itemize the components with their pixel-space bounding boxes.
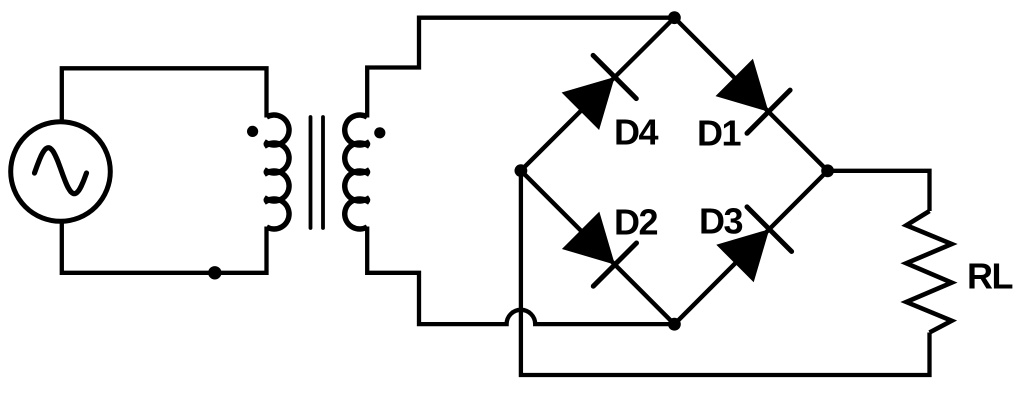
resistor RL zigzag bbox=[906, 211, 951, 333]
diode D1 cathode bar bbox=[747, 90, 790, 133]
svg-text:D1: D1 bbox=[697, 113, 741, 154]
wire bridge diamond edges bbox=[521, 18, 828, 325]
diode D3 cathode bar bbox=[747, 207, 792, 252]
wire left node down and bottom return bbox=[521, 171, 930, 375]
transformer T1 secondary coil bbox=[345, 115, 368, 229]
junction dot on primary bottom wire bbox=[208, 266, 221, 279]
transformer T1 polarity dot secondary bbox=[374, 127, 385, 138]
node right junction dot bbox=[821, 164, 834, 177]
wire secondary top to bridge bbox=[367, 18, 674, 118]
node left junction dot bbox=[515, 164, 528, 177]
svg-text:RL: RL bbox=[967, 256, 1012, 297]
diode D1 triangle bbox=[716, 59, 769, 112]
diode D2 triangle bbox=[562, 212, 615, 265]
diode D4 triangle bbox=[562, 77, 615, 130]
wire secondary bottom to bridge with crossover hop bbox=[367, 227, 674, 325]
wire right node to load bbox=[828, 171, 930, 211]
diode D4 cathode bar bbox=[593, 55, 636, 98]
svg-text:D3: D3 bbox=[699, 201, 742, 242]
transformer T1 primary coil bbox=[266, 115, 289, 229]
AC source V1 sine wave bbox=[35, 148, 87, 194]
svg-text:D4: D4 bbox=[614, 112, 658, 153]
transformer T1 polarity dot primary bbox=[247, 126, 258, 137]
diode D3 triangle bbox=[716, 229, 769, 282]
node bottom junction dot bbox=[668, 318, 681, 331]
wire primary bottom bbox=[62, 221, 267, 272]
svg-text:D2: D2 bbox=[614, 202, 657, 243]
wire primary top bbox=[62, 68, 267, 122]
transformer core bbox=[311, 117, 324, 228]
diode D2 cathode bar bbox=[593, 243, 636, 286]
AC source V1 circle bbox=[11, 122, 111, 222]
node top junction dot bbox=[668, 11, 681, 24]
